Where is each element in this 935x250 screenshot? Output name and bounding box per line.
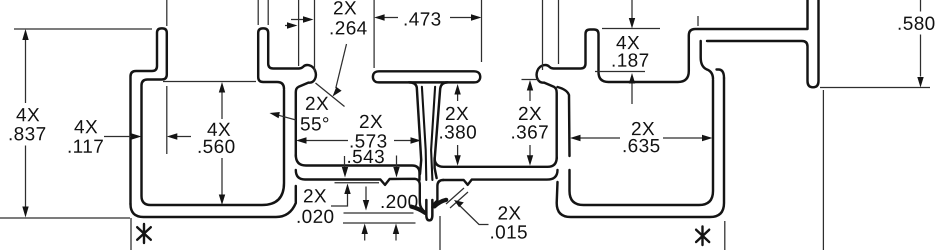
svg-text:.264: .264 <box>329 18 368 39</box>
svg-text:.560: .560 <box>197 137 236 158</box>
svg-text:2X: 2X <box>497 204 521 225</box>
svg-text:.187: .187 <box>611 51 650 72</box>
svg-text:4X: 4X <box>74 117 98 138</box>
svg-text:.635: .635 <box>622 136 661 157</box>
svg-text:.543: .543 <box>346 147 385 168</box>
svg-text:4X: 4X <box>16 105 40 126</box>
svg-text:2X: 2X <box>303 186 327 207</box>
svg-text:.380: .380 <box>438 122 477 143</box>
svg-text:2X: 2X <box>359 112 383 133</box>
svg-text:.837: .837 <box>8 124 47 145</box>
svg-text:.580: .580 <box>897 14 935 35</box>
svg-text:55°: 55° <box>300 114 330 135</box>
svg-text:.367: .367 <box>510 123 549 144</box>
svg-text:.473: .473 <box>403 9 442 30</box>
svg-text:2X: 2X <box>333 0 357 19</box>
svg-text:.117: .117 <box>67 137 104 158</box>
svg-text:.200: .200 <box>380 192 419 213</box>
svg-text:.015: .015 <box>489 223 528 244</box>
svg-text:.020: .020 <box>296 207 335 228</box>
svg-text:2X: 2X <box>305 94 329 115</box>
